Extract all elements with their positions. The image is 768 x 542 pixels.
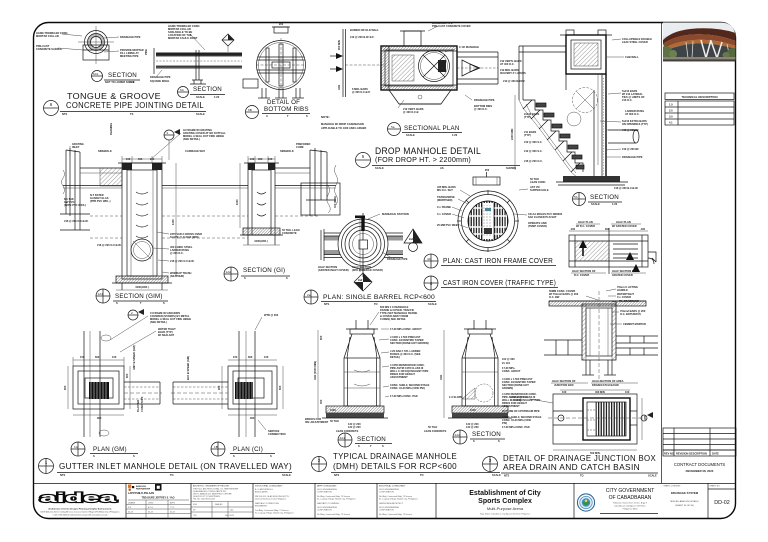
trees right (727, 48, 739, 58)
stairs steps (519, 100, 584, 178)
detail 5a: drop manhole sectional plan (381, 46, 457, 90)
trees left (660, 46, 672, 58)
svg-text:(MORTISED): (MORTISED) (437, 198, 453, 202)
label 1A1 SECTION (GIM) (96, 289, 110, 303)
svg-text:2a1: 2a1 (409, 237, 414, 241)
dims (553, 390, 642, 450)
svg-text:SHEET NO.: SHEET NO. (710, 486, 721, 488)
svg-text:PARTNERSHIP: PARTNERSHIP (136, 488, 151, 491)
svg-text:STRUCTURAL CONSULTANT:: STRUCTURAL CONSULTANT: (255, 485, 283, 488)
detail 6A: pipe joint long section (144, 24, 242, 99)
svg-text:400 MIN: 400 MIN (595, 390, 605, 394)
top chamber (566, 35, 606, 74)
svg-text:5th Bldg. Centennial Bldg. 73: 5th Bldg. Centennial Bldg. 73 Service (379, 513, 413, 516)
svg-text:JUNCTION BOX: JUNCTION BOX (554, 383, 574, 387)
title 2 (312, 457, 327, 472)
svg-text:150: 150 (112, 355, 117, 359)
svg-text:600: 600 (605, 227, 610, 231)
label 1A PLAN (GM) (71, 442, 85, 456)
svg-text:LEAN CONC.: LEAN CONC. (530, 180, 546, 184)
svg-text:SIDEWALK: SIDEWALK (98, 149, 112, 153)
svg-text:#16 @ 200 O.C.B.W.: #16 @ 200 O.C.B.W. (170, 259, 195, 263)
svg-text:1:20: 1:20 (452, 133, 458, 137)
inner circle w/ X (419, 51, 450, 82)
svg-text:AT 400 O.C.: AT 400 O.C. (500, 62, 515, 66)
svg-text:CITY GOVERNMENT: CITY GOVERNMENT (606, 488, 655, 494)
signature block (126, 484, 191, 519)
landing / base slab (563, 176, 620, 182)
svg-text:.100: .100 (570, 227, 576, 231)
svg-text:50 THK: 50 THK (330, 419, 339, 423)
body (344, 358, 380, 406)
top leaders (549, 285, 646, 326)
svg-text:SECTIONAL PLAN: SECTIONAL PLAN (404, 125, 460, 132)
svg-text:HALF PLAN: HALF PLAN (616, 220, 631, 224)
svg-text:IN EVERY 2' LAYERS: IN EVERY 2' LAYERS (500, 71, 526, 75)
diamond symbol (222, 34, 234, 46)
svg-text:TO: TO (170, 473, 174, 477)
svg-text:#12 @ 200 BF: #12 @ 200 BF (622, 147, 639, 151)
svg-text:TECHNICAL DESCRIPTION: TECHNICAL DESCRIPTION (682, 95, 718, 99)
left curb block (60, 148, 90, 230)
svg-text:NTS: NTS (324, 302, 329, 306)
svg-text:AT 300 O.C.: AT 300 O.C. (625, 112, 640, 116)
svg-text:Architecture | Interior Desi: Architecture | Interior Design | Plannin… (48, 508, 112, 511)
channel to right dashed (124, 381, 160, 383)
svg-text:(TYP): (TYP) (524, 133, 531, 137)
svg-text:R.P.: R.P. (128, 507, 132, 509)
svg-text:SCALE: SCALE (648, 474, 657, 478)
svg-text:2a: 2a (307, 293, 311, 297)
svg-text:ADJUSTMENT: ADJUSTMENT (502, 404, 520, 408)
svg-text:12# @ 200: 12# @ 200 (466, 425, 479, 429)
svg-text:100: 100 (230, 510, 233, 512)
svg-text:DEC-2023: DEC-2023 (225, 515, 234, 517)
left approach slab (80, 167, 122, 169)
left vertical dim line (514, 95, 516, 170)
svg-text:TYPICAL DRAINAGE MANHOLE: TYPICAL DRAINAGE MANHOLE (333, 451, 457, 461)
left stub (243, 79, 258, 88)
svg-text:5a: 5a (391, 125, 395, 129)
svg-text:ARCHITECT / ENGINEER OF RECORD: ARCHITECT / ENGINEER OF RECORD: (193, 485, 230, 488)
svg-text:900: 900 (63, 385, 67, 390)
svg-text:INV. ADJUSTMENT: INV. ADJUSTMENT (305, 420, 329, 424)
dim texts near tops (72, 123, 311, 161)
bottom labels 2A2 (424, 422, 479, 433)
svg-text:@ 400 O.C.B: @ 400 O.C.B (403, 110, 419, 114)
plan rect (569, 235, 648, 267)
svg-text:CORPORATION: CORPORATION (379, 509, 394, 512)
svg-text:150: 150 (264, 355, 269, 359)
right wall (601, 74, 603, 178)
svg-text:#16 @ 200 O.C.: #16 @ 200 O.C. (524, 159, 543, 163)
svg-text:S: S (116, 301, 118, 305)
strip cell dividers (126, 483, 708, 519)
svg-text:900: 900 (97, 416, 102, 420)
svg-text:SEALED: SEALED (215, 503, 223, 506)
svg-text:CORPORATION: CORPORATION (379, 491, 394, 494)
svg-text:1200: 1200 (171, 219, 175, 225)
svg-text:SCALE: SCALE (375, 166, 384, 170)
svg-text:NTS: NTS (334, 473, 339, 477)
svg-text:17.30 MPa CONC. GROUT: 17.30 MPa CONC. GROUT (390, 327, 422, 331)
svg-text:SIDEWALK: SIDEWALK (280, 149, 294, 153)
svg-text:2: 2 (131, 311, 133, 315)
svg-text:S: S (382, 444, 384, 448)
svg-text:SECTION: SECTION (193, 86, 222, 93)
svg-text:CHKD: CHKD (148, 503, 154, 505)
svg-text:CURBS) SEE DETAIL: CURBS) SEE DETAIL (380, 317, 406, 321)
svg-text:SAF CLOSED PLN SHT: SAF CLOSED PLN SHT (528, 215, 557, 219)
svg-text:REVISION DESCRIPTION: REVISION DESCRIPTION (676, 452, 707, 456)
svg-text:Multi-Purpose Arena: Multi-Purpose Arena (487, 506, 524, 511)
svg-text:St., Legazpi Village, Makati C: St., Legazpi Village, Makati City, Phili… (317, 498, 356, 501)
svg-text:S: S (163, 301, 165, 305)
dims (569, 230, 648, 232)
bottom strip top line (34, 483, 736, 485)
svg-text:SCALE: SCALE (406, 133, 415, 137)
rungs (136, 192, 148, 238)
svg-text:CONC. 10.30 MPa (1500 PSI): CONC. 10.30 MPa (1500 PSI) (390, 386, 425, 390)
manhole station leader (368, 214, 380, 219)
label 4A (424, 254, 438, 268)
svg-text:PLAN: SINGLE BARREL RCP<600: PLAN: SINGLE BARREL RCP<600 (323, 294, 435, 301)
svg-text:1.0: 1.0 (669, 103, 673, 107)
circle w/ X (manhole opening) (573, 88, 598, 113)
consultant cell 1 (193, 485, 239, 501)
svg-text:DROP MANHOLE DETAIL: DROP MANHOLE DETAIL (375, 146, 481, 157)
svg-text:PIPE: PIPE (144, 49, 148, 55)
building rendering photo (660, 22, 739, 61)
black hatched center (89, 382, 109, 399)
vertical dim lines (69, 146, 71, 156)
leaders top (428, 26, 438, 31)
marker + notes right (255, 317, 262, 330)
legs (582, 360, 616, 375)
svg-text:(SEE DETAIL): (SEE DETAIL) (150, 320, 167, 324)
svg-text:SHOWN: SHOWN (506, 166, 516, 170)
svg-text:S: S (270, 454, 272, 458)
svg-text:DRAINAGE PIPE: DRAINAGE PIPE (474, 98, 495, 102)
left notes column (between I and J) (502, 357, 542, 429)
consultant cell 2 (255, 485, 294, 515)
building body / glass (667, 43, 736, 58)
svg-text:REV NO: REV NO (664, 452, 674, 456)
svg-text:SCALE: SCALE (282, 473, 291, 477)
svg-text:Sports Complex: Sports Complex (478, 498, 532, 505)
mid leader notes (170, 232, 202, 278)
svg-text:5b: 5b (574, 195, 578, 199)
svg-text:@ 300 O.C.: @ 300 O.C. (170, 251, 184, 255)
hanger below (190, 71, 206, 84)
left wall top (565, 74, 567, 90)
svg-text:TEL NO. (02) 8922-0431: TEL NO. (02) 8922-0431 (193, 499, 216, 501)
svg-text:MORTAR COLLAR: MORTAR COLLAR (36, 34, 59, 38)
svg-text:St., Legazpi Village, Makati C: St., Legazpi Village, Makati City, Phili… (255, 512, 294, 515)
legs (258, 88, 304, 98)
label 6A SECTION (178, 87, 189, 98)
svg-text:ELECTRICAL CONSULTANT:: ELECTRICAL CONSULTANT: (379, 485, 406, 488)
svg-text:NOTE:: NOTE: (321, 115, 330, 119)
top leader notes (190, 34, 205, 50)
svg-text:05-23: 05-23 (128, 512, 133, 514)
pipe left (544, 340, 582, 355)
svg-text:DRAIN/CATCH BASIN: DRAIN/CATCH BASIN (592, 383, 619, 387)
svg-text:(TEMP COVER): (TEMP COVER) (528, 224, 547, 228)
svg-text:S: S (498, 439, 500, 443)
base slab (326, 406, 384, 413)
svg-text:HALF SECTION OF AREA: HALF SECTION OF AREA (592, 379, 624, 383)
svg-text:DRAWN: DRAWN (128, 502, 136, 505)
svg-text:CONCRETE PIPE JOINTING DETAIL: CONCRETE PIPE JOINTING DETAIL (66, 100, 204, 110)
svg-text:SLOPE @ O.2040 (MIN): SLOPE @ O.2040 (MIN) (170, 235, 199, 239)
svg-text:1000: 1000 (330, 408, 336, 412)
centerlines (95, 26, 97, 64)
svg-text:(SEE DETAIL): (SEE DETAIL) (183, 137, 200, 141)
svg-text:PLASTER: PLASTER (136, 400, 140, 412)
svg-text:150: 150 (126, 157, 131, 161)
svg-text:LEAN CONCRETE: LEAN CONCRETE (336, 429, 359, 433)
label 5b SECTION (573, 193, 586, 206)
svg-text:(W/O MANHOLE COVER): (W/O MANHOLE COVER) (352, 268, 383, 272)
svg-text:AS: AS (440, 166, 444, 170)
centerline (598, 291, 600, 382)
svg-text:T +63 2 750-0589 | E aidea@aid: T +63 2 750-0589 | E aidea@aidea.com.ph … (52, 515, 107, 517)
svg-text:FRAMING: FRAMING (109, 123, 113, 135)
svg-text:#12 @ 300 BHOW: #12 @ 300 BHOW (503, 79, 525, 83)
neck flare (344, 334, 380, 358)
svg-text:DETAIL OF: DETAIL OF (267, 99, 300, 106)
right leader labels (614, 37, 652, 190)
left leaders (437, 185, 460, 227)
svg-text:10# @ 300: 10# @ 300 (502, 357, 515, 361)
svg-text:100: 100 (625, 390, 630, 394)
svg-text:2a2: 2a2 (358, 278, 363, 282)
svg-text:PRE-CAST CONCRETE COVER: PRE-CAST CONCRETE COVER (432, 24, 471, 28)
svg-text:MANHOLE W/ DROP CASEMASON: MANHOLE W/ DROP CASEMASON (321, 122, 364, 126)
svg-text:(TYP): (TYP) (524, 115, 531, 119)
svg-text:MANHOLE STATION: MANHOLE STATION (382, 212, 409, 216)
svg-text:1000(VAR.): 1000(VAR.) (135, 285, 149, 289)
svg-text:ADJUSTMENT: ADJUSTMENT (390, 375, 408, 379)
svg-text:600: 600 (248, 355, 253, 359)
trapezoid below (389, 90, 451, 104)
svg-text:1:3 SLOPE: 1:3 SLOPE (449, 395, 463, 399)
svg-text:300: 300 (319, 399, 323, 404)
svg-text:50 TILK: 50 TILK (428, 425, 437, 429)
right half: grated (613, 244, 638, 258)
pipe stub right (608, 130, 639, 143)
leader: mortar note (104, 51, 119, 52)
svg-text:SECTION (DONE HOT GROWN): SECTION (DONE HOT GROWN) (390, 341, 429, 345)
svg-text:S: S (93, 454, 95, 458)
svg-text:GMY B SPEED (GM): GMY B SPEED (GM) (132, 345, 136, 370)
svg-text:LEAN CONCRETE: LEAN CONCRETE (424, 429, 447, 433)
svg-text:#16 @ 300 B.C.B.W.: #16 @ 300 B.C.B.W. (614, 186, 638, 190)
svg-text:150: 150 (150, 157, 155, 161)
label 2a PLAN: SINGLE BARREL (304, 290, 318, 304)
svg-text:2A2: 2A2 (455, 433, 461, 437)
2A2 manhole section (439, 320, 512, 418)
svg-text:OUTLINE OF UPSTREAM PIPE: OUTLINE OF UPSTREAM PIPE (502, 409, 540, 413)
svg-text:S: S (244, 276, 246, 280)
svg-text:(PPR PVC WKL.): (PPR PVC WKL.) (90, 199, 111, 203)
bolt ticks (457, 190, 519, 252)
leader: left note 2 (58, 48, 83, 50)
svg-text:SECTION: SECTION (472, 431, 501, 438)
top stub (404, 31, 421, 46)
top leader for 2A1 (380, 305, 417, 321)
svg-text:@ 400 O.C.: @ 400 O.C. (474, 107, 488, 111)
svg-text:(SEJPOHR): (SEJPOHR) (170, 274, 184, 278)
roof (663, 28, 736, 44)
svg-text:100: 100 (562, 390, 567, 394)
drainage pipe leader (382, 252, 390, 257)
svg-text:TREASURE JEFFREY S. YAO: TREASURE JEFFREY S. YAO (141, 497, 174, 500)
title column divider (661, 23, 663, 484)
left small texts (64, 193, 122, 247)
svg-text:GROWN): GROWN) (502, 386, 513, 390)
white W columns (701, 40, 722, 58)
left half: RC cover w/ hatch (575, 241, 609, 261)
label 6A1 SECTION (92, 71, 103, 82)
svg-text:ON OPENINGS (TYP): ON OPENINGS (TYP) (622, 122, 648, 126)
svg-text:APPD: APPD (170, 502, 176, 505)
dims for 1A (68, 357, 130, 415)
side footing posts (121, 283, 123, 290)
svg-text:TS: TS (130, 112, 134, 116)
svg-text:1000(VAR.): 1000(VAR.) (254, 239, 268, 243)
svg-text:150: 150 (250, 157, 255, 161)
svg-text:1:20: 1:20 (129, 80, 135, 84)
svg-text:NTS: NTS (504, 474, 509, 478)
svg-text:(GRATED INLET COVER): (GRATED INLET COVER) (318, 268, 349, 272)
svg-text:(DMH) DETAILS FOR RCP<600: (DMH) DETAILS FOR RCP<600 (333, 461, 457, 471)
svg-text:SCALE: SCALE (196, 95, 205, 99)
svg-text:CONC/TOPS: CONC/TOPS (140, 396, 144, 412)
svg-text:1B: 1B (214, 445, 218, 449)
svg-text:S: S (133, 454, 135, 458)
svg-text:SCALE: SCALE (428, 302, 437, 306)
consultant cell 4 (379, 485, 418, 517)
svg-text:CONNECTION: CONNECTION (268, 432, 286, 436)
bottom leaders (157, 70, 162, 76)
svg-text:25 MM PVC WEEP: 25 MM PVC WEEP (437, 223, 460, 227)
svg-text:4.1: 4.1 (669, 121, 673, 125)
svg-text:C.I. FRAME: C.I. FRAME (437, 205, 451, 209)
svg-text:S: S (358, 444, 360, 448)
svg-text:BAY B SPEED (GM): BAY B SPEED (GM) (186, 356, 190, 380)
svg-text:VAR: VAR (337, 85, 341, 90)
svg-text:HALF SECTION OF: HALF SECTION OF (572, 269, 596, 273)
svg-text:MEPF CONSULTANT:: MEPF CONSULTANT: (317, 485, 337, 488)
channel to left dashed (173, 381, 228, 383)
center notes column (390, 327, 430, 398)
svg-text:INLET: INLET (72, 145, 80, 149)
svg-text:DRAINAGE PIPE: DRAINAGE PIPE (120, 35, 141, 39)
svg-text:DETAIL): DETAIL) (390, 355, 400, 359)
junction box plan (553, 394, 637, 444)
svg-text:6B: 6B (248, 108, 252, 112)
svg-text:#16 @ 200 O.C.B.W.: #16 @ 200 O.C.B.W. (64, 219, 89, 223)
svg-text:BURIED OR OLD WALL: BURIED OR OLD WALL (350, 28, 379, 32)
consultant cell 3 (317, 485, 356, 517)
svg-text:DRAINAGE PIPE: DRAINAGE PIPE (150, 75, 171, 79)
leader: left note 1 (62, 34, 82, 36)
svg-text:PLAN: CAST IRON FRAME COVER: PLAN: CAST IRON FRAME COVER (443, 258, 553, 265)
svg-text:Brgy. Mabini Cabadbaran City A: Brgy. Mabini Cabadbaran City Agusan del … (480, 513, 530, 516)
svg-text:#12 @ 300 S.C.: #12 @ 300 S.C. (524, 140, 543, 144)
svg-text:200: 200 (279, 22, 284, 26)
svg-text:Philippines 8605: Philippines 8605 (623, 509, 639, 511)
svg-text:12# @ 200: 12# @ 200 (348, 425, 361, 429)
svg-text:A: A (266, 114, 268, 118)
right plan 1B (171, 331, 277, 437)
svg-text:CONC. GROUT: CONC. GROUT (502, 369, 521, 373)
svg-text:SHEET CONTENT:: SHEET CONTENT: (664, 486, 682, 488)
svg-text:S: S (473, 439, 475, 443)
svg-text:1A1: 1A1 (98, 292, 104, 296)
svg-text:SECTION (GIM): SECTION (GIM) (115, 293, 163, 300)
svg-text:MS O.C. SHT: MS O.C. SHT (437, 188, 453, 192)
svg-text:W/ GRATED COVER: W/ GRATED COVER (612, 224, 637, 228)
leader left of plan (510, 395, 529, 402)
top frame rect (473, 177, 500, 185)
center divider (608, 228, 610, 274)
top leader note w/ marker 2 (164, 130, 174, 140)
top frame (122, 163, 132, 170)
label 1A2 SECTION (GI) (224, 267, 238, 281)
svg-text:17.30 MPa CONC. PAD: 17.30 MPa CONC. PAD (390, 394, 418, 398)
svg-text:CHB WALL: CHB WALL (625, 55, 639, 59)
svg-text:C.I. COVER: C.I. COVER (617, 295, 631, 299)
svg-text:5th Bldg. Centennial Bldg. 73: 5th Bldg. Centennial Bldg. 73 Service (317, 513, 351, 516)
big title 1 (39, 459, 54, 474)
rib grid (258, 56, 304, 58)
svg-text:400: 400 (643, 415, 647, 420)
svg-text:600: 600 (278, 385, 282, 390)
nested plan rects (73, 366, 124, 409)
dashes left half (587, 409, 596, 411)
label 1B PLAN (CI) (211, 442, 225, 456)
svg-text:SECTION: SECTION (108, 72, 137, 79)
svg-text:SCALE: SCALE (196, 112, 205, 116)
svg-text:400 (MIN.): 400 (MIN.) (333, 196, 337, 208)
svg-text:HALF SECTION OF: HALF SECTION OF (552, 379, 576, 383)
svg-text:Quezon Boulevard City, Philipp: Quezon Boulevard City, Philippines (255, 498, 286, 501)
svg-text:GRATED COVER: GRATED COVER (612, 273, 633, 277)
svg-text:NTS: NTS (62, 112, 67, 116)
1A1 left manhole section (112, 163, 172, 290)
svg-text:HANDLE: HANDLE (617, 288, 628, 292)
svg-text:#10 O.C.: #10 O.C. (622, 98, 633, 102)
svg-text:HALF SECTION OF: HALF SECTION OF (612, 269, 636, 273)
triangle marker 2a1 right (404, 229, 422, 243)
svg-text:#16 @ 200 O.C.B.W.: #16 @ 200 O.C.B.W. (97, 243, 122, 247)
svg-text:(SHEET 34 OF 36): (SHEET 34 OF 36) (675, 505, 694, 507)
svg-text:250: 250 (485, 168, 490, 172)
svg-text:150: 150 (233, 355, 238, 359)
revision table (663, 428, 736, 456)
svg-text:500: 500 (138, 157, 143, 161)
svg-text:2200 MIN: 2200 MIN (510, 129, 514, 140)
svg-text:SECTION: SECTION (590, 194, 619, 201)
svg-text:DATE: DATE (712, 452, 719, 456)
svg-text:TO: TO (580, 474, 584, 478)
svg-text:S: S (306, 114, 308, 118)
black arrows (579, 240, 587, 248)
dashed subgrade line (90, 215, 122, 217)
